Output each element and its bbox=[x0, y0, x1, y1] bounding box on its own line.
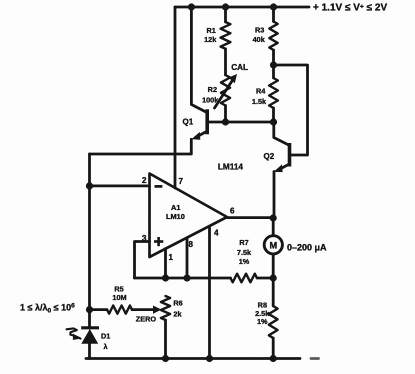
node rail-R3 junction bbox=[270, 3, 277, 10]
svg-text:7.5k: 7.5k bbox=[237, 248, 252, 257]
wire pins 3-1-8 bus bbox=[135, 277, 231, 280]
wire Q2 emitter to output node bbox=[273, 172, 276, 219]
wire ground bus stub bbox=[311, 357, 319, 360]
svg-text:12k: 12k bbox=[204, 35, 217, 44]
node R8-ground junction bbox=[270, 355, 277, 362]
wire left column (summing node) bbox=[88, 154, 91, 328]
op-amp A1 LM10 bbox=[150, 174, 228, 258]
node pin2 junction bbox=[86, 182, 93, 189]
svg-text:R2: R2 bbox=[208, 85, 217, 94]
resistor R8 2.5k 1% bbox=[272, 278, 275, 306]
svg-text:1%: 1% bbox=[257, 317, 268, 326]
svg-text:M: M bbox=[269, 240, 277, 250]
node R2 bottom junction bbox=[222, 118, 229, 125]
wire V+ supply rail bbox=[175, 6, 309, 9]
resistor R7 7.5k 1% bbox=[231, 274, 258, 283]
node pin4-ground junction bbox=[206, 355, 213, 362]
svg-text:Q1: Q1 bbox=[183, 118, 194, 127]
wire pin 8 bbox=[186, 238, 189, 278]
resistor R5 10M bbox=[90, 308, 108, 311]
svg-text:R7: R7 bbox=[239, 238, 248, 247]
wire ground bus bbox=[86, 357, 300, 360]
svg-text:1: 1 bbox=[169, 253, 174, 262]
node pin1/R6 junction bbox=[162, 274, 169, 281]
svg-text:7: 7 bbox=[179, 177, 184, 186]
R2 wiper arrow bbox=[215, 81, 233, 108]
wire Q2 base loop to R3/R4 node bbox=[274, 65, 308, 155]
node pin8 junction bbox=[183, 274, 190, 281]
svg-text:1%: 1% bbox=[239, 257, 250, 266]
transistor Q1 (LM114 half) bbox=[183, 7, 208, 140]
svg-text:D1: D1 bbox=[101, 332, 110, 341]
svg-text:CAL: CAL bbox=[231, 63, 248, 72]
node R5 tap junction bbox=[86, 306, 93, 313]
svg-text:R6: R6 bbox=[173, 299, 182, 308]
svg-text:1.5k: 1.5k bbox=[252, 97, 267, 106]
resistor R3 40k bbox=[272, 7, 275, 22]
svg-text:R4: R4 bbox=[256, 87, 266, 96]
node meter-bottom/R7/R8 junction bbox=[270, 274, 277, 281]
svg-text:6: 6 bbox=[230, 207, 235, 216]
wire output pin 6 bbox=[226, 216, 274, 219]
svg-text:8: 8 bbox=[189, 240, 194, 249]
resistor R4 1.5k bbox=[272, 65, 275, 78]
wire meter top bbox=[272, 218, 275, 235]
node rail-Q1 junction bbox=[188, 3, 195, 10]
node R4 bottom junction bbox=[270, 118, 277, 125]
svg-text:+ 1.1V ≤ V+ ≤ 2V: + 1.1V ≤ V+ ≤ 2V bbox=[313, 3, 387, 14]
resistor R2 100k (CAL trimpot) bbox=[221, 75, 230, 106]
svg-text:Q2: Q2 bbox=[264, 152, 275, 161]
svg-text:R3: R3 bbox=[255, 26, 264, 35]
svg-text:10M: 10M bbox=[112, 293, 126, 302]
svg-text:2: 2 bbox=[142, 176, 147, 185]
svg-text:LM114: LM114 bbox=[218, 163, 243, 172]
wire pin 4 to ground bus bbox=[208, 227, 211, 359]
wire Q1 emitter to pin2 node bbox=[90, 139, 192, 154]
svg-text:0–200 μA: 0–200 μA bbox=[287, 242, 327, 252]
diode D1 photodiode bbox=[81, 328, 99, 359]
meter M 0-200uA bbox=[264, 236, 282, 254]
wire inverting input (pin 2) bbox=[90, 184, 150, 187]
wire non-inverting input (pin 3) bbox=[135, 242, 150, 279]
resistor R1 12k bbox=[224, 7, 227, 22]
node R6-ground junction bbox=[162, 355, 169, 362]
D1 light arrow bbox=[67, 328, 81, 340]
svg-text:LM10: LM10 bbox=[166, 212, 185, 221]
transistor Q2 (LM114 half) bbox=[264, 122, 290, 172]
svg-text:ZERO: ZERO bbox=[136, 314, 157, 323]
svg-text:40k: 40k bbox=[253, 35, 266, 44]
resistor R6 2k (ZERO pot) bbox=[161, 296, 170, 320]
svg-text:A1: A1 bbox=[171, 203, 180, 212]
node rail-R1 junction bbox=[222, 3, 229, 10]
wire meter bottom bbox=[272, 254, 275, 278]
wire Q1 base to R2/R4 bottoms bbox=[208, 121, 274, 124]
svg-text:R1: R1 bbox=[206, 26, 215, 35]
svg-text:λ: λ bbox=[104, 342, 108, 351]
node R3-R4 junction bbox=[270, 61, 277, 68]
wire pin7 to rail bbox=[174, 7, 177, 188]
svg-text:4: 4 bbox=[214, 229, 219, 238]
svg-text:2k: 2k bbox=[173, 310, 182, 319]
wire pin 1 bbox=[164, 249, 167, 278]
node output/meter-top junction bbox=[270, 214, 277, 221]
